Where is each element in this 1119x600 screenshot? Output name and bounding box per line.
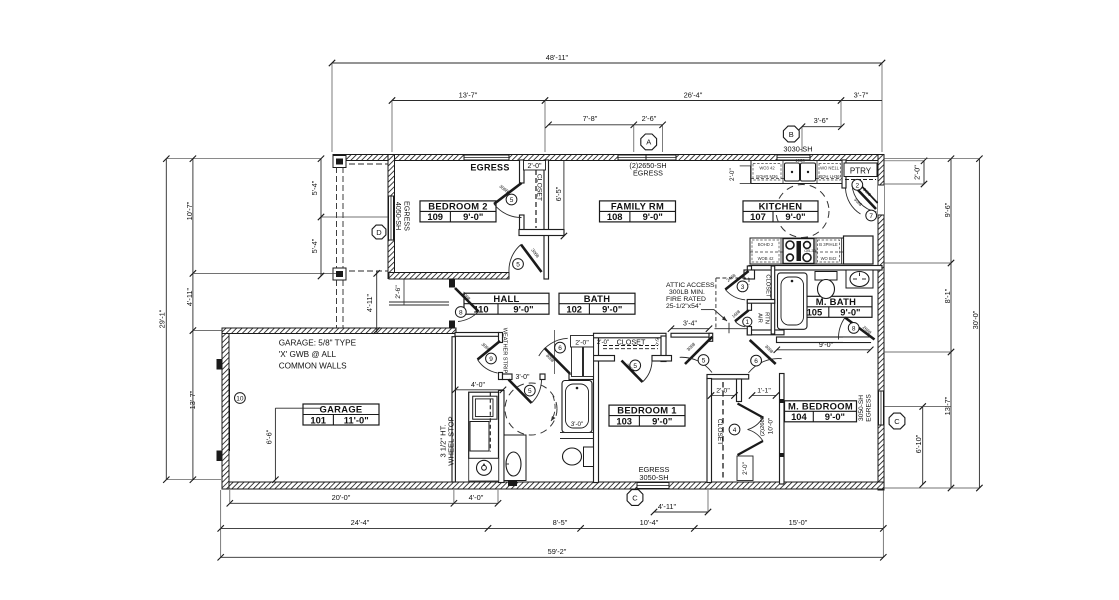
marker C right	[889, 413, 905, 429]
text 10'-0 and 2668 mbed closet	[760, 416, 775, 436]
room label m bath	[800, 296, 872, 318]
svg-text:BATH: BATH	[584, 293, 611, 304]
svg-text:2'-0": 2'-0"	[575, 339, 589, 346]
linen cabinet 2'-0	[571, 336, 594, 377]
text closet bedroom1	[603, 338, 660, 349]
svg-text:RTN: RTN	[764, 312, 770, 324]
door 5 bedroom1 entry	[680, 337, 713, 373]
text egress bedroom2 top	[470, 163, 509, 173]
marker D bedroom2 window	[372, 225, 386, 239]
svg-text:FAMILY RM: FAMILY RM	[611, 201, 664, 212]
bath vanity sink	[504, 435, 526, 481]
svg-text:6: 6	[558, 345, 562, 352]
room label m bedroom	[785, 400, 857, 422]
dim 24'-4 bottom	[218, 490, 887, 557]
svg-text:9'-6": 9'-6"	[943, 202, 952, 217]
dim 8'-5 bottom	[553, 518, 568, 527]
kitchen hall door3 wall stub	[744, 270, 755, 279]
text air rtn	[757, 312, 770, 324]
svg-text:BOHR M36: BOHR M36	[756, 174, 778, 179]
svg-text:25-1/2"x54": 25-1/2"x54"	[666, 303, 702, 310]
m.bath tub	[778, 273, 808, 329]
svg-text:10'-0": 10'-0"	[768, 417, 775, 434]
svg-text:48'-11": 48'-11"	[546, 53, 569, 62]
svg-text:108: 108	[607, 211, 623, 222]
svg-text:CLOSET: CLOSET	[716, 419, 723, 445]
mud nook south wall	[455, 333, 499, 337]
dim 3'-6 top right	[799, 116, 845, 152]
svg-text:2'-0": 2'-0"	[597, 339, 609, 346]
dim 2'-0 bed1 closet label	[597, 339, 609, 346]
room label hall	[464, 293, 549, 315]
svg-text:9'-0": 9'-0"	[513, 304, 533, 315]
dim 9'-6 right	[884, 156, 979, 492]
room label garage	[303, 404, 379, 426]
dim 30'-0 right outer	[884, 156, 983, 492]
svg-text:COMMON WALLS: COMMON WALLS	[279, 362, 347, 371]
m.bedroom north wall / m.bath south wall	[777, 337, 871, 343]
garage west exterior wall	[222, 328, 229, 489]
dim 2'-6 top	[634, 114, 666, 152]
dim 13'-7 left	[188, 390, 197, 409]
svg-text:CLOSET: CLOSET	[765, 274, 771, 298]
svg-text:101: 101	[310, 414, 326, 425]
svg-text:3'-0": 3'-0"	[516, 374, 530, 381]
svg-text:9'-0": 9'-0"	[463, 211, 483, 222]
svg-text:103: 103	[616, 415, 632, 426]
bottom exterior wall	[222, 482, 884, 489]
svg-text:A: A	[646, 138, 651, 147]
garage east wall	[452, 337, 455, 482]
svg-text:2'-0": 2'-0"	[913, 165, 922, 180]
svg-text:M. BEDROOM: M. BEDROOM	[788, 400, 853, 411]
svg-text:2'-0": 2'-0"	[742, 462, 749, 475]
room label kitchen	[743, 201, 818, 223]
dim 10'-7 left	[185, 156, 196, 483]
svg-text:KITCHEN: KITCHEN	[759, 201, 803, 212]
svg-text:13'-7": 13'-7"	[459, 91, 478, 100]
svg-text:WO NE1L: WO NE1L	[820, 166, 840, 171]
svg-text:BEDROOM 1: BEDROOM 1	[617, 405, 676, 416]
bath-furnace wall	[499, 391, 505, 483]
bath north wall segments	[503, 374, 595, 380]
dim 4'-11 bottom	[651, 490, 711, 515]
text garage gwb note	[279, 339, 357, 371]
bedroom1 west wall	[594, 336, 599, 483]
garage-hall wall with door9	[499, 333, 503, 380]
svg-text:3'-7": 3'-7"	[854, 91, 869, 100]
svg-text:WEATHER STRIP: WEATHER STRIP	[502, 328, 508, 374]
furnace unit	[469, 392, 499, 458]
svg-text:8'-1": 8'-1"	[943, 288, 952, 303]
bedroom1 closet front wall	[594, 356, 672, 362]
door 8 m.bath	[838, 318, 874, 340]
text closet vertical bedroom1	[716, 419, 723, 445]
svg-text:109: 109	[427, 211, 443, 222]
svg-text:13'-7": 13'-7"	[943, 396, 952, 415]
kitchen upper counter	[751, 161, 842, 184]
water heater	[469, 458, 499, 481]
door 5 bedroom2 entry	[509, 245, 542, 273]
marker B window	[783, 126, 812, 153]
attic access hatch dashed	[701, 278, 749, 329]
svg-text:3050-SH: 3050-SH	[639, 473, 668, 482]
pantry west wall	[842, 160, 846, 188]
svg-text:10'-7": 10'-7"	[185, 201, 194, 220]
svg-text:7'-8": 7'-8"	[583, 114, 598, 123]
svg-text:2'-0": 2'-0"	[716, 388, 730, 395]
m.bath closet-airrtn partition	[747, 266, 774, 334]
svg-text:6: 6	[754, 358, 758, 365]
door 5 bedroom2 closet	[494, 183, 522, 218]
svg-text:107: 107	[750, 211, 766, 222]
bath room separation line	[554, 330, 556, 374]
window bedroom2 egress 4050-SH west wall	[388, 196, 394, 240]
svg-text:5'-4": 5'-4"	[310, 238, 319, 253]
dim 10'-4 bottom	[640, 518, 659, 527]
dim 20'-0 bottom	[227, 490, 502, 507]
door 7 side entry	[852, 185, 877, 221]
svg-text:300LB MIN.: 300LB MIN.	[669, 289, 705, 296]
bath tub apron	[560, 433, 594, 439]
m.bath toilet	[815, 272, 837, 299]
svg-text:59'-2": 59'-2"	[548, 547, 567, 556]
dim 29'-1 left	[158, 156, 322, 483]
svg-text:9'-0": 9'-0"	[840, 307, 860, 318]
svg-text:D: D	[376, 228, 382, 237]
dim 6'-5 closet depth	[554, 160, 567, 239]
dim 4'-0 bottom	[469, 493, 484, 502]
svg-text:26'-4": 26'-4"	[684, 91, 703, 100]
window family room (2)2650-SH	[618, 155, 676, 161]
svg-text:5'-4": 5'-4"	[310, 180, 319, 195]
window bedroom1 egress 3050-SH bottom wall	[637, 482, 669, 489]
svg-text:2: 2	[855, 182, 859, 189]
svg-text:9'-0": 9'-0"	[819, 340, 834, 349]
text 2x2650 egress	[629, 161, 666, 178]
svg-text:WHEEL STOP: WHEEL STOP	[447, 416, 456, 465]
dim 2'-6 stoop	[395, 280, 404, 306]
dim 13'-7 right	[943, 396, 952, 415]
svg-text:4050-SH: 4050-SH	[394, 202, 403, 230]
svg-text:5: 5	[510, 197, 514, 204]
porch dashed edge lines	[337, 164, 389, 328]
text egress bedroom1	[639, 465, 670, 482]
svg-text:EGRESS: EGRESS	[470, 163, 509, 173]
window m.bedroom egress 3050-SH right wall	[878, 391, 884, 425]
svg-text:105: 105	[807, 307, 823, 318]
svg-text:HALL: HALL	[493, 293, 519, 304]
svg-text:7: 7	[869, 213, 873, 220]
text ptry	[844, 163, 877, 180]
window kitchen 3030-SH	[777, 155, 810, 161]
svg-text:EGRESS: EGRESS	[403, 201, 412, 231]
svg-text:6'-10": 6'-10"	[914, 434, 923, 453]
window bedroom2 top EGRESS 2650	[464, 155, 509, 161]
room label family rm	[600, 201, 676, 223]
text attic access	[666, 282, 715, 310]
marker 10 garage	[235, 393, 246, 404]
dim 5'-4 5'-4 porch	[310, 156, 388, 280]
svg-text:4'-11": 4'-11"	[185, 287, 194, 306]
bedroom2 west exterior wall	[388, 155, 395, 279]
bedroom2 closet west wall	[520, 160, 525, 230]
door 8 hall west	[455, 288, 479, 322]
svg-text:6'-6": 6'-6"	[265, 429, 274, 444]
m.bath sink	[846, 270, 873, 288]
svg-text:24'-4": 24'-4"	[351, 518, 370, 527]
svg-text:BOHD 2: BOHD 2	[758, 242, 774, 247]
svg-text:9'-0": 9'-0"	[643, 211, 663, 222]
m.bath south wall west part	[747, 330, 784, 335]
svg-text:13'-7": 13'-7"	[188, 390, 197, 409]
bedroom2 closet bottom wall	[519, 230, 564, 236]
door 6 linen vestibule	[539, 338, 570, 373]
svg-text:EGRESS: EGRESS	[866, 394, 873, 422]
text egress m.bedroom	[858, 394, 873, 422]
svg-text:3'-6": 3'-6"	[814, 116, 829, 125]
svg-text:9: 9	[489, 356, 493, 363]
svg-text:2'-0": 2'-0"	[528, 163, 542, 170]
svg-text:9'-0": 9'-0"	[825, 411, 845, 422]
svg-text:EGRESS: EGRESS	[633, 169, 663, 178]
porch post top-left	[333, 156, 346, 168]
garage north wall	[222, 328, 456, 334]
svg-text:3030-SH: 3030-SH	[783, 145, 812, 154]
text closet m.bath	[765, 274, 771, 298]
refrigerator	[844, 236, 874, 264]
vestibule south wall	[707, 375, 749, 380]
dim 48'-11 top	[329, 53, 885, 152]
threshold mark	[508, 481, 517, 487]
svg-text:4'-0": 4'-0"	[471, 382, 485, 389]
svg-text:WO3 42: WO3 42	[759, 166, 775, 171]
dim 1'-1 closet stub	[749, 388, 779, 399]
vestibule center mullion	[715, 323, 749, 334]
dim 4'-0 nook	[452, 382, 506, 393]
svg-text:4: 4	[733, 427, 737, 434]
side door 7 opening in right wall	[878, 185, 884, 215]
vestibule north wall 3'-4 segment	[671, 333, 713, 341]
door 2 pantry	[846, 179, 878, 214]
bedroom2 south wall / hall north wall	[389, 273, 509, 280]
door 1 air return	[731, 308, 752, 326]
svg-text:WOB 42: WOB 42	[758, 256, 774, 261]
svg-text:8: 8	[852, 325, 856, 332]
svg-text:2'-6": 2'-6"	[642, 114, 657, 123]
svg-text:5: 5	[516, 262, 520, 269]
svg-text:10: 10	[236, 396, 244, 403]
svg-text:GARAGE: 5/8" TYPE: GARAGE: 5/8" TYPE	[279, 339, 357, 348]
marker A window	[641, 134, 657, 150]
top exterior wall	[333, 155, 884, 161]
dim 26'-4 top	[545, 91, 844, 153]
svg-text:PTRY: PTRY	[850, 167, 872, 176]
door 5 bedroom1 closet	[622, 360, 653, 382]
svg-text:11'-0": 11'-0"	[344, 414, 369, 425]
svg-text:(2)2668: (2)2668	[760, 416, 766, 436]
svg-text:1938: 1938	[795, 158, 805, 163]
right exterior wall	[878, 155, 884, 491]
svg-text:2'-6": 2'-6"	[395, 285, 402, 299]
door 4 m.bedroom closet bifold	[729, 404, 763, 456]
room label bedroom 1	[609, 405, 685, 427]
door 6 m.bedroom entry	[749, 340, 782, 373]
svg-text:BOH LH36: BOH LH36	[819, 174, 840, 179]
svg-text:3050-SH: 3050-SH	[858, 395, 865, 421]
bedroom2 closet east wall / family rm west	[544, 160, 549, 279]
svg-text:10'-4": 10'-4"	[640, 518, 659, 527]
rear stoop step lines	[389, 302, 449, 305]
svg-text:30'-0": 30'-0"	[971, 310, 980, 329]
bath tub	[562, 381, 592, 433]
porch post mid-left	[333, 268, 346, 280]
m.bath door8 opening	[843, 338, 876, 343]
dim 2'-0 bedroom2 closet	[524, 161, 546, 171]
text weather strip	[502, 328, 508, 374]
dishwasher dim 2'-0	[729, 166, 751, 184]
svg-text:4'-11": 4'-11"	[658, 502, 677, 511]
bedroom1 closet north wall	[594, 333, 667, 338]
svg-text:C: C	[632, 493, 638, 502]
svg-text:3'-0": 3'-0"	[571, 421, 583, 428]
svg-text:20'-0": 20'-0"	[332, 493, 351, 502]
m.bedroom west wall	[780, 374, 785, 485]
svg-text:104: 104	[791, 411, 807, 422]
dim 7'-8 top	[545, 114, 637, 128]
dim 2'-0 right top	[884, 158, 927, 188]
svg-text:9'-0": 9'-0"	[652, 415, 672, 426]
dim 59'-2 bottom	[218, 547, 887, 561]
dim 8'-1 right	[884, 263, 952, 352]
svg-text:6'-5": 6'-5"	[554, 186, 563, 201]
svg-text:5'-0: 5'-0	[655, 338, 660, 346]
text wheel stop	[439, 416, 456, 465]
svg-text:C: C	[894, 417, 900, 426]
svg-text:B: B	[789, 130, 794, 139]
svg-text:5: 5	[528, 388, 532, 395]
kitchen south wall / m.bath north wall	[749, 266, 882, 271]
kitchen lower counter island	[750, 238, 873, 264]
bath toilet	[563, 447, 594, 467]
range stove 4 burners	[783, 239, 817, 264]
svg-text:FIRE RATED: FIRE RATED	[666, 296, 706, 303]
bedroom1/mbed closet walls below vestibule	[707, 379, 742, 483]
svg-text:'X' GWB @ ALL: 'X' GWB @ ALL	[279, 350, 337, 359]
m.bedroom closet bifold opening jambs	[780, 399, 785, 457]
svg-text:4'-11": 4'-11"	[365, 293, 374, 312]
svg-text:OB-30: OB-30	[804, 248, 816, 253]
room label bedroom 2	[420, 201, 496, 223]
bath turning circle dashed	[505, 383, 557, 435]
svg-text:9'-0": 9'-0"	[602, 304, 622, 315]
dim 4'-11 left	[185, 273, 336, 330]
door 5 bath	[509, 380, 542, 404]
m.bath west wall / hall east wall	[747, 266, 751, 335]
svg-text:GARAGE: GARAGE	[320, 404, 363, 415]
garage west wall pilasters	[217, 359, 230, 461]
svg-text:4'-0": 4'-0"	[469, 493, 484, 502]
bedroom1 closet east wall	[661, 336, 666, 362]
dim 6'-10 right	[884, 403, 951, 487]
dim 15'-0 bottom	[789, 518, 808, 527]
svg-text:3: 3	[741, 284, 745, 291]
svg-text:5: 5	[702, 358, 706, 365]
svg-text:WO B42: WO B42	[821, 256, 837, 261]
dim 13'-7 top	[389, 91, 548, 153]
svg-text:8: 8	[459, 310, 463, 317]
svg-text:BEDROOM 2: BEDROOM 2	[428, 201, 487, 212]
dim 3'-0 bath door	[516, 374, 530, 381]
svg-text:29'-1": 29'-1"	[158, 309, 167, 328]
dim 4'-11 porch right	[365, 270, 380, 334]
hall west wall with door8 jambs	[449, 280, 455, 329]
text closet bedroom2	[536, 170, 543, 228]
svg-text:1'-1": 1'-1"	[757, 388, 771, 395]
svg-text:9'-0": 9'-0"	[785, 211, 805, 222]
svg-text:15'-0": 15'-0"	[789, 518, 808, 527]
kitchen sink double bowl	[785, 158, 816, 181]
door 9 garage entry	[478, 341, 501, 373]
svg-text:2'-0": 2'-0"	[729, 168, 736, 181]
svg-text:102: 102	[566, 304, 582, 315]
shoe box 2'-0 mbed closet	[737, 456, 753, 481]
svg-text:1: 1	[745, 319, 749, 326]
floor plan drawing	[158, 53, 983, 561]
room label bath	[559, 293, 635, 315]
dim 3'-7 top	[841, 91, 882, 128]
svg-text:ATTIC ACCESS: ATTIC ACCESS	[666, 282, 715, 289]
svg-text:8'-5": 8'-5"	[553, 518, 568, 527]
marker C bottom	[627, 490, 643, 506]
dim 6'-6 garage	[265, 408, 322, 483]
dim 3'-4 vestibule	[668, 321, 712, 332]
door 3 kitchen hall	[725, 271, 748, 300]
svg-text:B 3PIHLE: B 3PIHLE	[819, 242, 838, 247]
text egress 4050 bedroom2 left	[394, 201, 412, 231]
svg-text:3'-4": 3'-4"	[683, 321, 697, 328]
svg-text:AIR: AIR	[757, 313, 763, 323]
kitchen dining dashed circle	[776, 185, 829, 238]
dim 9'-0 m.bedroom	[774, 340, 874, 353]
dim 2'-0 closet below vestibule	[708, 388, 738, 399]
